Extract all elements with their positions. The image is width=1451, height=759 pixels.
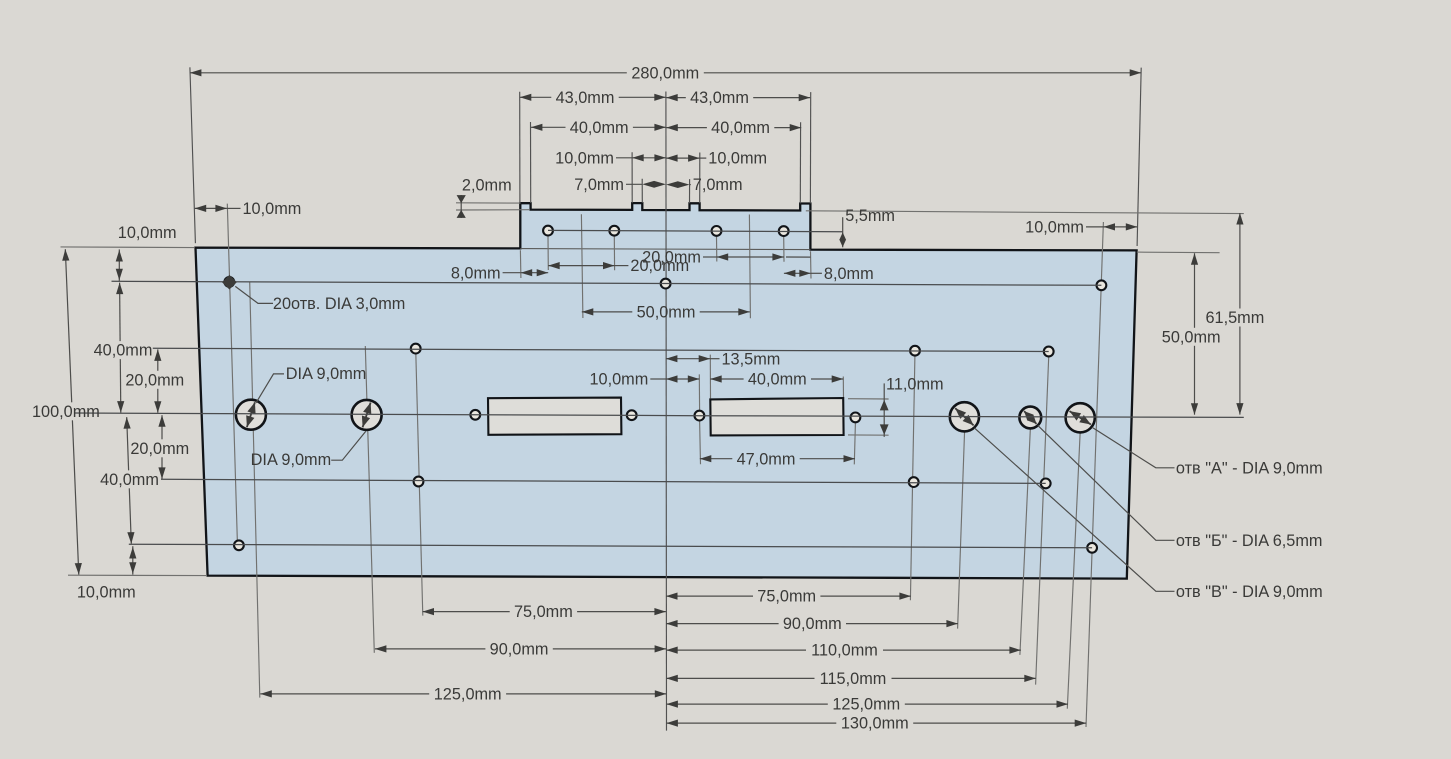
svg-text:125,0mm: 125,0mm [832,696,900,714]
hole row40dn left [234,540,244,550]
label 20otv DIA 3,0mm [222,275,405,313]
extension 2mm upper [456,202,521,204]
extension bump inner right (7mm) [689,179,691,203]
svg-text:100,0mm: 100,0mm [32,403,100,421]
svg-text:43,0mm: 43,0mm [690,89,749,107]
row line 40mm below center [129,544,1092,548]
svg-text:280,0mm: 280,0mm [631,64,699,82]
dimension 40,0mm (40mm left upper) [94,283,153,413]
dimension 13,5mm (13,5mm) [666,350,780,368]
circle C2 DIA 9mm [352,400,382,430]
dimension 47,0mm (47mm) [700,450,855,468]
extension bottom edge left [68,574,207,576]
dimension 90,0mm (90mm left) [375,641,666,659]
svg-text:40,0mm: 40,0mm [711,119,770,137]
dimension 75,0mm (75mm left) [423,603,666,621]
dimension 10,0mm (10mm slot) [589,371,699,389]
row line tab holes [548,230,843,231]
svg-text:7,0mm: 7,0mm [574,176,624,194]
row line 3mm holes (40mm above center) [112,281,1102,285]
extension right 3mm hole column [1086,222,1103,727]
extension 2mm lower [456,209,530,211]
dimension 40,0mm (40mm right) [666,119,801,137]
slot S2 [710,398,843,435]
dimension 20,0mm (20mm tab left) [548,257,689,275]
dimension 50,0mm (50mm right) [1162,253,1221,415]
svg-text:20,0mm: 20,0mm [642,249,701,267]
extension slot2 right edge up (40mm) [842,377,844,399]
extension tab left edge down (8mm) [519,250,522,278]
svg-text:90,0mm: 90,0mm [783,615,842,633]
dimension 8,0mm (8mm right) [784,265,874,283]
dimension 61,5mm (61,5mm) [1205,213,1264,415]
hole row20dn left [414,477,424,487]
circle hole A (DIA 9mm) [1066,403,1095,432]
extension 50mm tab right [749,215,750,319]
dimension 10,0mm (10mm top-left) [195,200,302,218]
extension slot2 bottom right (11mm) [848,434,889,436]
svg-text:75,0mm: 75,0mm [757,588,816,606]
extension top edge left [61,246,195,249]
hole tab 1 [543,226,553,236]
svg-text:7,0mm: 7,0mm [693,176,743,194]
label otv B - DIA 6,5mm [1038,425,1323,549]
dimension 10,0mm (10mm top-right) [1025,219,1137,237]
hole center row c [695,411,705,421]
svg-text:61,5mm: 61,5mm [1205,309,1264,327]
dimension 110,0mm (110mm) [666,642,1021,660]
svg-text:8,0mm: 8,0mm [451,264,501,282]
hole row20dn mid [909,477,919,487]
dimension 7,0mm (7mm right) [666,176,742,194]
extension 75mm-left hole column [416,349,423,616]
extension 50mm tab left [581,214,583,318]
svg-text:50,0mm: 50,0mm [637,304,696,322]
svg-text:13,5mm: 13,5mm [722,350,781,368]
svg-text:5,5mm: 5,5mm [845,207,895,225]
svg-text:130,0mm: 130,0mm [841,715,909,733]
extension 75mm-right hole column [910,351,915,600]
hole 3mm top-center [661,279,671,289]
svg-text:DIA 9,0mm: DIA 9,0mm [286,365,367,383]
dimension 20,0mm (20mm tab right) [642,249,784,267]
hole tab 3 [712,226,722,236]
extension bump outer right (10mm) [699,153,701,204]
hole row20dn right [1041,479,1051,489]
hole 3mm top-left [224,277,234,287]
svg-text:10,0mm: 10,0mm [118,224,177,242]
row line 20mm below center [161,479,1046,483]
extension tab edge left up (43mm) [519,92,521,203]
dimension 8,0mm (8mm left) [451,264,548,282]
dimension 5,5mm [839,207,895,247]
row line 20mm above center [153,348,1049,351]
hole row20up left [411,344,421,354]
hole 3mm top-right [1097,280,1107,290]
extension ledge left up (40mm) [530,122,532,203]
dimension 20,0mm (20mm left upper) [125,349,184,412]
svg-text:20,0mm: 20,0mm [130,440,189,458]
svg-text:10,0mm: 10,0mm [708,150,767,168]
dimension 125,0mm (125mm right) [666,696,1068,714]
circle C1 DIA 9mm [236,400,266,430]
dimension 75,0mm (75mm right) [666,588,911,606]
extension 50mm from top-right corner [1137,251,1220,254]
hole center row a [470,410,480,420]
svg-text:125,0mm: 125,0mm [434,686,502,704]
svg-text:43,0mm: 43,0mm [556,89,615,107]
plate outline [196,203,1137,578]
extension hole x855 down (47mm) [854,423,855,464]
svg-text:10,0mm: 10,0mm [555,149,614,167]
extension bump inner left (7mm) [641,179,643,203]
extension circle V column [1067,432,1080,709]
hole row20up right [1044,347,1054,357]
dimension 40,0mm (40mm left) [531,119,666,137]
svg-text:110,0mm: 110,0mm [811,642,878,660]
dimension 90,0mm (90mm right) [666,615,958,633]
label otv V - DIA 9,0mm [974,428,1322,601]
dimension 10,0mm (left column top) [116,224,177,281]
row line center [74,413,1244,417]
label DIA 9,0mm (circle C2) [251,431,366,469]
svg-text:90,0mm: 90,0mm [490,641,549,659]
svg-text:40,0mm: 40,0mm [94,342,153,360]
hole row20up mid [910,346,920,356]
top edge continuation under tab [520,249,810,250]
extension ledge right up (40mm) [799,122,801,203]
circle hole B (DIA 6.5mm) [1019,407,1041,429]
extension circle B column [1020,428,1031,655]
svg-text:отв "В" - DIA 9,0mm: отв "В" - DIA 9,0mm [1176,583,1323,601]
dimension 100,0mm (100mm) [32,249,100,574]
extension 280mm left [190,67,196,243]
extension tab hole 4 down [783,237,785,262]
svg-text:20,0mm: 20,0mm [125,371,184,389]
extension 280mm right [1137,68,1141,246]
extension left 3mm hole column [227,204,237,550]
svg-text:DIA 9,0mm: DIA 9,0mm [251,451,332,469]
dimension 115,0mm (115mm) [666,670,1036,688]
svg-text:10,0mm: 10,0mm [243,200,302,218]
dimension 40,0mm (40mm slot) [710,371,843,389]
label otv A - DIA 9,0mm [1092,427,1323,477]
dimension 2,0mm [457,177,512,218]
svg-text:115,0mm: 115,0mm [820,670,887,688]
extension slot2 left edge up (13.5mm) [709,355,711,399]
center line [665,92,668,731]
extension 115mm hole column [1036,352,1049,685]
extension tab right edge down (8mm) [810,251,813,278]
svg-text:40,0mm: 40,0mm [100,471,159,489]
dimension 10,0mm (10mm tab right) [666,150,767,168]
dimension 10,0mm (10mm tab left) [555,149,666,167]
svg-text:75,0mm: 75,0mm [514,603,573,621]
hole row40dn right [1087,543,1097,553]
svg-text:47,0mm: 47,0mm [737,450,796,468]
dimension 11,0mm [880,375,944,437]
extension tab hole 3 down [716,237,718,262]
svg-text:8,0mm: 8,0mm [824,265,874,283]
dimension 50,0mm (50mm tab) [582,304,750,322]
svg-text:40,0mm: 40,0mm [748,371,807,389]
extension hole x699 up (10mm) [698,374,700,410]
svg-text:2,0mm: 2,0mm [462,177,512,195]
slot S1 [488,398,621,435]
svg-text:20отв. DIA 3,0mm: 20отв. DIA 3,0mm [273,295,405,313]
svg-text:отв "А" - DIA 9,0mm: отв "А" - DIA 9,0mm [1176,459,1323,477]
extension tab edge right up (43mm) [809,92,811,203]
dimension 43,0mm (43mm left) [520,89,666,107]
dimension 125,0mm (125mm left) [260,686,666,704]
extension circle A column [958,431,965,629]
dimension 20,0mm (20mm left lower) [130,415,189,479]
svg-text:10,0mm: 10,0mm [1025,219,1084,237]
hole tab 2 [609,226,619,236]
label DIA 9,0mm (circle C1) [256,365,366,403]
svg-text:отв "Б" - DIA 6,5mm: отв "Б" - DIA 6,5mm [1176,532,1323,550]
svg-text:10,0mm: 10,0mm [589,371,648,389]
extension tab hole 2 down [613,236,615,270]
extension circle C2 column [365,346,374,653]
dimension 40,0mm (40mm left lower) [100,417,159,544]
dimension 10,0mm (left column bottom) [77,546,137,601]
dimension 130,0mm (130mm) [666,715,1086,733]
dimension 20mm right stub [786,256,811,258]
hole tab 4 [779,226,789,236]
hole center row d [851,413,861,423]
extension hole x699 down (47mm) [699,421,702,465]
svg-text:50,0mm: 50,0mm [1162,328,1221,346]
extension slot2 top right (11mm) [848,398,889,400]
hole center row b [627,410,637,420]
extension bump outer left (10mm) [631,152,633,203]
dimension 7,0mm (7mm left) [574,176,666,194]
extension tab hole 1 down [547,236,549,270]
svg-text:10,0mm: 10,0mm [77,584,136,602]
circle hole V (DIA 9mm) [950,402,979,431]
dimension 280,0mm (280mm) [190,64,1141,82]
svg-text:11,0mm: 11,0mm [886,375,944,393]
extension 61.5mm from tab ledge [806,211,1244,214]
dimension 43,0mm (43mm right) [666,89,810,107]
extension circle C1 column [250,282,260,697]
svg-text:40,0mm: 40,0mm [570,119,629,137]
